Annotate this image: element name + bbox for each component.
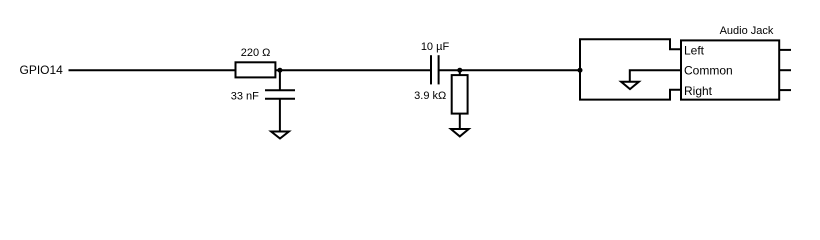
pin stub Left right side (779, 49, 791, 51)
svg-text:33 nF: 33 nF (231, 90, 259, 102)
plug body outline (580, 39, 680, 99)
wire C1 to ground (279, 99, 281, 132)
capacitor C1 bottom plate (265, 98, 295, 100)
node junction A dot (277, 68, 282, 73)
resistor R1 body (236, 62, 276, 77)
svg-text:3.9 kΩ: 3.9 kΩ (414, 90, 446, 102)
ground G3 (621, 82, 639, 89)
svg-text:Right: Right (684, 84, 713, 98)
wire R2 to ground (459, 114, 461, 129)
wire C2 to plug box (439, 69, 580, 71)
svg-text:10 µF: 10 µF (421, 41, 450, 53)
node junction C dot on plug box (578, 68, 583, 73)
pin stub Common right side (779, 69, 791, 71)
connector J1 Audio Jack box (681, 40, 779, 99)
svg-text:Left: Left (684, 44, 705, 58)
wire GPIO14 to R1 (69, 69, 236, 71)
svg-text:Common: Common (684, 63, 733, 77)
resistor R2 body (452, 75, 468, 114)
ground G1 (271, 132, 289, 139)
wire junction B down to R2 (459, 70, 461, 75)
capacitor C2 left plate (430, 55, 432, 84)
svg-text:GPIO14: GPIO14 (20, 63, 64, 77)
capacitor C2 right plate (438, 55, 440, 84)
capacitor C1 top plate (265, 89, 295, 91)
wire Common to ground (630, 70, 680, 82)
wire junction A down to C1 (279, 70, 281, 90)
svg-text:Audio Jack: Audio Jack (720, 25, 774, 37)
pin stub Right right side (779, 89, 791, 91)
node junction B dot (457, 68, 462, 73)
wire R1 to C2 (275, 69, 431, 71)
ground G2 (451, 129, 469, 136)
svg-text:220 Ω: 220 Ω (241, 47, 271, 59)
